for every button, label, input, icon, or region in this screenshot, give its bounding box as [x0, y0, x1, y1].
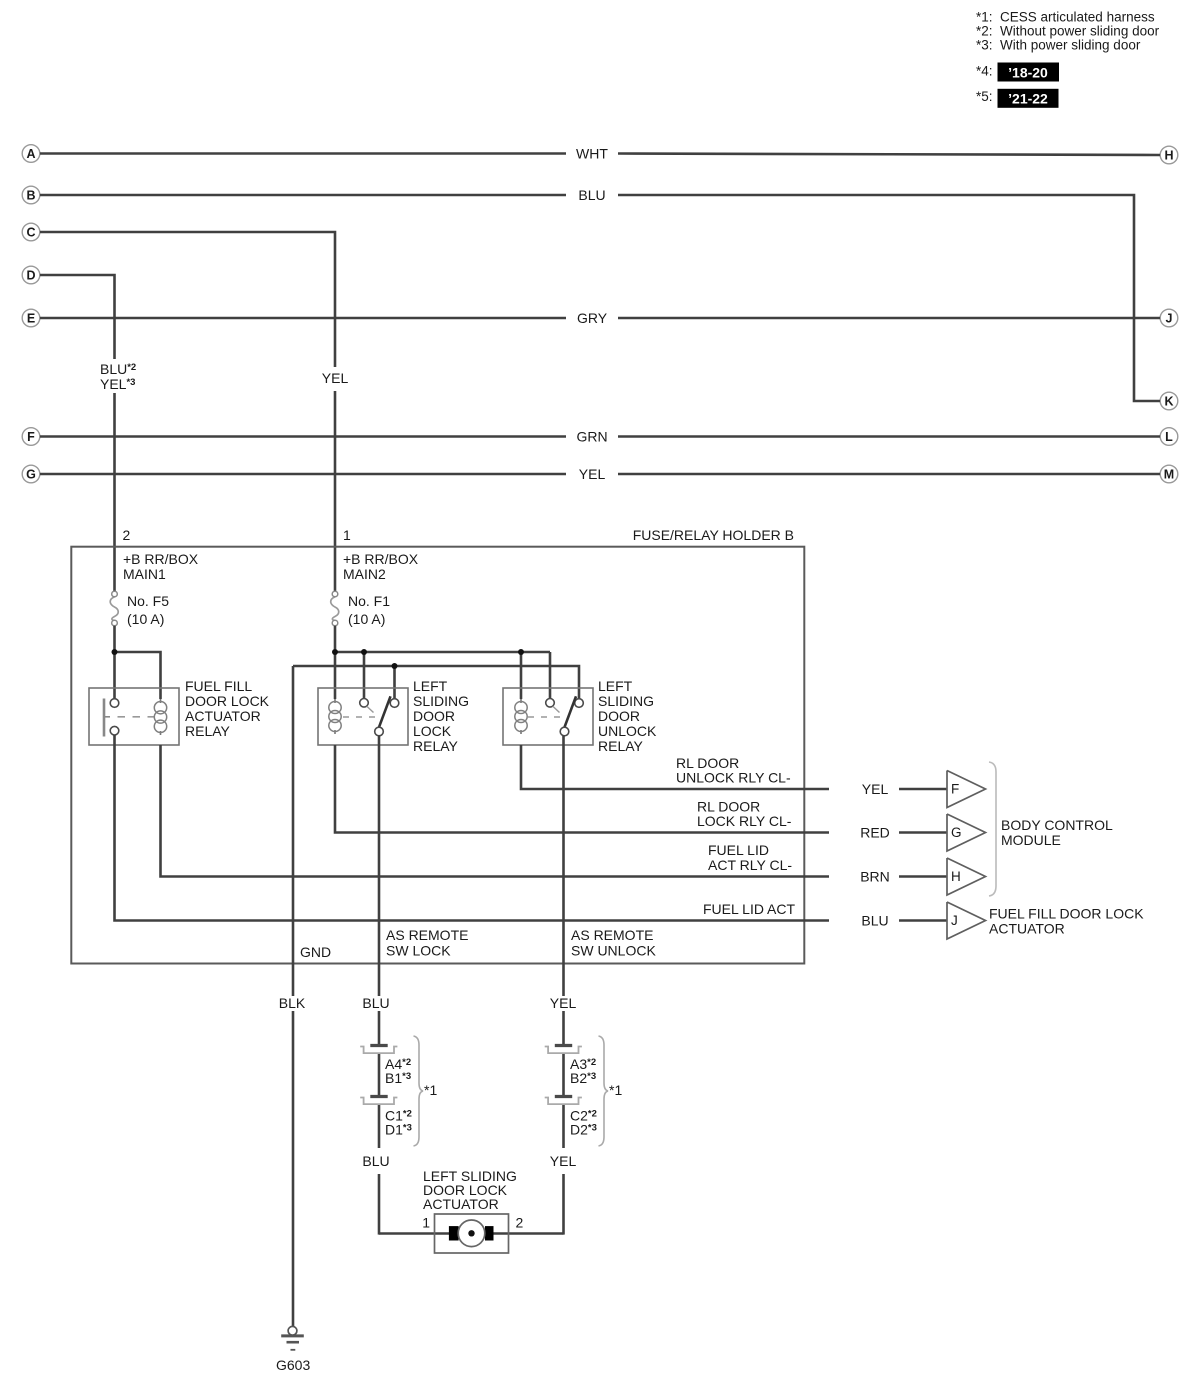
connector circle K: [1160, 392, 1178, 410]
wire K1 contact to J row BLU fuel lid act: [115, 735, 830, 921]
svg-text:G603: G603: [276, 1357, 310, 1373]
svg-text:2: 2: [123, 527, 131, 543]
wire K2 coil to BCM G row RED: [335, 745, 829, 833]
wire connector to actuator pin 2: [562, 1105, 565, 1148]
svg-text:G: G: [26, 467, 36, 481]
fuse/relay holder B box: [71, 547, 804, 964]
connector circle A: [22, 145, 40, 163]
svg-text:No. F1: No. F1: [348, 593, 390, 609]
svg-text:SLIDING: SLIDING: [598, 693, 654, 709]
svg-text:BLK: BLK: [279, 995, 306, 1011]
junction node K3 coil feed: [518, 649, 524, 655]
svg-text:F: F: [27, 430, 35, 444]
wire between connectors YEL branch: [562, 1054, 565, 1095]
svg-text:D: D: [26, 268, 35, 282]
relay K3 bottom pin: [560, 727, 569, 736]
svg-text:D2*3: D2*3: [570, 1122, 597, 1138]
svg-text:AS REMOTE: AS REMOTE: [386, 927, 468, 943]
BCM connector triangle F: [947, 771, 986, 808]
wire ground bus to relay contacts: [293, 666, 579, 699]
svg-text:B2*3: B2*3: [570, 1070, 596, 1086]
wire F-L GRN: [40, 435, 566, 438]
svg-text:No. F5: No. F5: [127, 593, 169, 609]
svg-text:J: J: [1166, 311, 1173, 325]
connector A4/B1 harness joint: [370, 1044, 387, 1047]
svg-text:LEFT: LEFT: [413, 678, 448, 694]
wire D down to fuse F5: [40, 275, 115, 359]
junction node K2 right pin feed: [392, 663, 398, 669]
connector circle G: [22, 465, 40, 483]
relay K2 box left sliding door lock relay: [318, 688, 408, 745]
svg-text:DOOR: DOOR: [598, 708, 640, 724]
connector circle C: [22, 223, 40, 241]
svg-text:+B RR/BOX: +B RR/BOX: [123, 551, 199, 567]
wire junction to relay K1 pins: [113, 652, 116, 699]
wire to relay K2 right pin: [393, 666, 396, 699]
svg-text:*1: CESS articulated harness: *1: CESS articulated harness: [976, 10, 1155, 25]
svg-text:*2: Without power sliding doo: *2: Without power sliding door: [976, 24, 1160, 39]
svg-text:J: J: [951, 913, 958, 928]
svg-text:A: A: [26, 147, 35, 161]
connector circle L: [1160, 428, 1178, 446]
svg-text:LOCK RLY CL-: LOCK RLY CL-: [697, 813, 792, 829]
connector triangle J fuel fill door lock actuator: [947, 902, 986, 939]
svg-text:GND: GND: [300, 944, 331, 960]
relay K2 right pin: [390, 699, 399, 708]
wire to relay K2 middle pin: [363, 652, 366, 698]
connector circle F: [22, 428, 40, 446]
svg-text:FUEL LID: FUEL LID: [708, 842, 769, 858]
motor M1 symbol: [449, 1226, 459, 1240]
svg-text:BODY CONTROL: BODY CONTROL: [1001, 817, 1113, 833]
relay K1 bottom contact pin: [110, 726, 119, 735]
connector circle J: [1160, 309, 1178, 327]
svg-text:L: L: [1165, 430, 1173, 444]
svg-text:SW LOCK: SW LOCK: [386, 943, 451, 959]
svg-text:1: 1: [343, 527, 351, 543]
connector circle H: [1160, 146, 1178, 164]
svg-text:RELAY: RELAY: [413, 738, 459, 754]
relay K3 right pin: [575, 699, 584, 708]
svg-text:BLU: BLU: [861, 913, 888, 929]
svg-text:FUEL LID ACT: FUEL LID ACT: [703, 901, 796, 917]
fuse F5 10A: [110, 597, 118, 621]
wire fuse F5 to junction: [113, 626, 116, 652]
wire K1 coil to BCM H row BRN: [161, 745, 830, 877]
svg-text:RELAY: RELAY: [185, 723, 231, 739]
svg-text:’21-22: ’21-22: [1008, 91, 1048, 107]
svg-text:MODULE: MODULE: [1001, 832, 1061, 848]
relay K3 box left sliding door unlock relay: [503, 688, 593, 745]
BCM connector triangle G: [947, 814, 986, 851]
svg-text:YEL: YEL: [322, 370, 349, 386]
wire K2 contact down as remote sw lock: [378, 736, 381, 996]
svg-text:YEL: YEL: [550, 1153, 577, 1169]
svg-text:LOCK: LOCK: [413, 723, 452, 739]
svg-text:’18-20: ’18-20: [1008, 65, 1048, 81]
svg-text:*5:: *5:: [976, 89, 993, 104]
connector circle E: [22, 309, 40, 327]
svg-text:*1: *1: [609, 1082, 622, 1098]
svg-text:UNLOCK RLY CL-: UNLOCK RLY CL-: [676, 770, 791, 786]
svg-text:BLU: BLU: [578, 187, 605, 203]
relay K2 switch blade: [379, 696, 391, 727]
relay K3 contact stub: [553, 706, 560, 712]
junction node F1 to K2 coil: [332, 649, 338, 655]
wire between connectors BLU branch: [378, 1054, 381, 1095]
svg-text:G: G: [951, 825, 962, 840]
svg-text:B1*3: B1*3: [385, 1070, 411, 1086]
svg-text:YEL: YEL: [550, 995, 577, 1011]
svg-text:ACT RLY CL-: ACT RLY CL-: [708, 857, 792, 873]
actuator M1 box left sliding door lock actuator: [435, 1214, 509, 1253]
svg-text:*3: With power sliding door: *3: With power sliding door: [976, 38, 1141, 53]
svg-text:F: F: [951, 782, 959, 797]
svg-text:GRY: GRY: [577, 310, 608, 326]
svg-text:M: M: [1164, 467, 1174, 481]
svg-text:*1: *1: [424, 1082, 437, 1098]
wire C down to fuse F1: [40, 232, 335, 367]
svg-text:B: B: [26, 188, 35, 202]
svg-text:AS REMOTE: AS REMOTE: [571, 927, 653, 943]
junction node K2 middle pin feed: [361, 649, 367, 655]
wire K3 contact down as remote sw unlock: [562, 736, 565, 996]
relay K2 contact stub: [367, 706, 374, 712]
svg-text:BRN: BRN: [860, 869, 890, 885]
svg-text:FUSE/RELAY HOLDER B: FUSE/RELAY HOLDER B: [633, 527, 794, 543]
svg-text:MAIN2: MAIN2: [343, 566, 386, 582]
svg-text:DOOR: DOOR: [413, 708, 455, 724]
connector A3/B2 harness joint: [555, 1044, 572, 1047]
svg-text:K: K: [1164, 394, 1173, 408]
svg-text:H: H: [1164, 148, 1173, 162]
svg-text:LEFT: LEFT: [598, 678, 633, 694]
bracket for body control module group: [989, 762, 996, 896]
wire K3 coil to BCM F row YEL: [521, 745, 829, 789]
svg-text:FUEL FILL DOOR LOCK: FUEL FILL DOOR LOCK: [989, 906, 1144, 922]
wire to relay K3 middle pin: [549, 652, 552, 698]
fuse F1 10A: [331, 597, 339, 621]
relay K2 middle pin: [360, 699, 369, 708]
svg-text:RELAY: RELAY: [598, 738, 644, 754]
relay K2 dashed link: [343, 716, 377, 718]
relay K3 dashed link: [528, 716, 562, 718]
svg-text:BLU: BLU: [362, 995, 389, 1011]
svg-text:C: C: [26, 225, 35, 239]
relay K1 coil: [160, 699, 162, 703]
wire A-H WHT: [40, 152, 566, 155]
connector C1/D1 harness joint: [370, 1095, 387, 1098]
relay K1 box fuel fill door lock actuator relay: [89, 688, 179, 745]
relay K2 coil: [334, 699, 336, 703]
relay K2 bottom pin: [375, 727, 384, 736]
BCM connector triangle H: [947, 858, 986, 895]
relay K3 middle pin: [546, 699, 555, 708]
svg-text:SW UNLOCK: SW UNLOCK: [571, 943, 656, 959]
svg-text:*4:: *4:: [976, 64, 993, 79]
connector circle D: [22, 266, 40, 284]
wire G-M YEL: [40, 473, 566, 476]
svg-text:BLU*2: BLU*2: [100, 361, 136, 377]
svg-text:ACTUATOR: ACTUATOR: [423, 1196, 499, 1212]
svg-text:UNLOCK: UNLOCK: [598, 723, 657, 739]
relay K1 armature bar: [103, 699, 106, 737]
svg-text:FUEL FILL: FUEL FILL: [185, 678, 252, 694]
svg-text:ACTUATOR: ACTUATOR: [185, 708, 261, 724]
brace *1 for BLU connectors: [414, 1036, 424, 1146]
svg-text:BLU: BLU: [362, 1153, 389, 1169]
connector C2/D2 harness joint: [555, 1095, 572, 1098]
svg-text:MAIN1: MAIN1: [123, 566, 166, 582]
svg-text:(10 A): (10 A): [127, 611, 164, 627]
svg-text:1: 1: [422, 1215, 430, 1231]
relay K1 dashed link: [118, 716, 157, 718]
svg-text:SLIDING: SLIDING: [413, 693, 469, 709]
svg-text:2: 2: [516, 1215, 524, 1231]
wire GND branch BLK to ground: [292, 666, 295, 996]
wire E-J GRY: [40, 317, 566, 320]
svg-text:YEL: YEL: [862, 781, 889, 797]
connector circle B: [22, 186, 40, 204]
svg-text:DOOR LOCK: DOOR LOCK: [185, 693, 270, 709]
svg-text:E: E: [27, 311, 35, 325]
svg-text:YEL*3: YEL*3: [100, 376, 135, 392]
relay K3 switch blade: [565, 696, 577, 727]
svg-text:D1*3: D1*3: [385, 1122, 412, 1138]
wire fuse F1 to junction: [334, 626, 337, 652]
svg-text:+B RR/BOX: +B RR/BOX: [343, 551, 419, 567]
svg-text:WHT: WHT: [576, 146, 608, 162]
wire F1 junction bus to relays: [335, 651, 550, 654]
wire connector to actuator pin 1: [378, 1105, 381, 1148]
wire B to K BLU: [40, 194, 566, 197]
svg-text:RED: RED: [860, 825, 890, 841]
svg-text:YEL: YEL: [579, 466, 606, 482]
svg-text:(10 A): (10 A): [348, 611, 385, 627]
brace *1 for YEL connectors: [599, 1036, 609, 1146]
ground symbol G603: [288, 1326, 297, 1335]
svg-text:H: H: [951, 869, 961, 884]
relay K1 top contact pin: [110, 699, 119, 708]
wire to relay K3 coil: [520, 652, 523, 699]
relay K3 coil: [520, 699, 522, 703]
junction node at F5 output: [112, 649, 118, 655]
connector circle M: [1160, 465, 1178, 483]
svg-text:GRN: GRN: [576, 429, 607, 445]
svg-text:ACTUATOR: ACTUATOR: [989, 921, 1065, 937]
